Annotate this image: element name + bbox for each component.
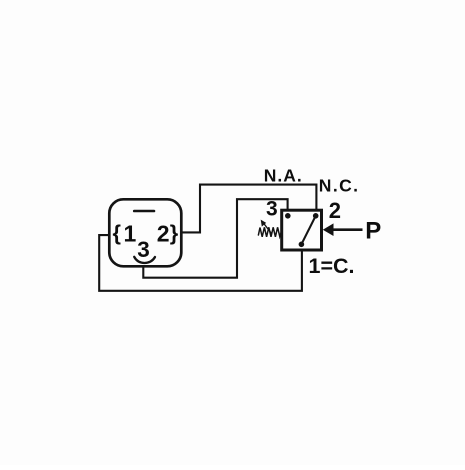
wire connector pin2 to switch terminal 2 (N.A./N.C. net) <box>181 185 316 233</box>
spring arrow head <box>261 220 267 227</box>
svg-text:3: 3 <box>266 198 278 221</box>
switch common terminal dot (bottom) <box>299 242 305 248</box>
svg-text:2: 2 <box>329 198 341 223</box>
pressure switch S1 body <box>282 210 322 250</box>
connector pin-3 arc <box>134 257 155 263</box>
svg-text:N.A.: N.A. <box>264 166 303 186</box>
svg-text:2: 2 <box>157 221 170 247</box>
svg-text:P: P <box>365 218 381 245</box>
P pressure arrow head <box>323 223 334 236</box>
connector J1 body <box>109 199 181 266</box>
svg-text:{: { <box>113 220 121 245</box>
svg-text:N.C.: N.C. <box>319 176 360 196</box>
connector key tick <box>134 210 154 213</box>
svg-text:}: } <box>170 220 179 245</box>
spring (adjustable) on switch <box>258 227 281 237</box>
wire switch common (1=C.) to connector left pin <box>99 235 302 291</box>
svg-text:3: 3 <box>137 237 150 262</box>
switch blade contact <box>301 216 315 245</box>
switch terminal dot 3 (top-left) <box>285 213 291 219</box>
switch terminal dot 2 (top-right) <box>313 213 319 219</box>
svg-text:1=C.: 1=C. <box>309 254 355 278</box>
svg-text:1: 1 <box>124 221 137 247</box>
spring adjustment arrow <box>263 223 272 234</box>
P pressure arrow shaft <box>333 228 363 231</box>
wire connector pin3 to switch terminal 3 <box>143 199 287 278</box>
